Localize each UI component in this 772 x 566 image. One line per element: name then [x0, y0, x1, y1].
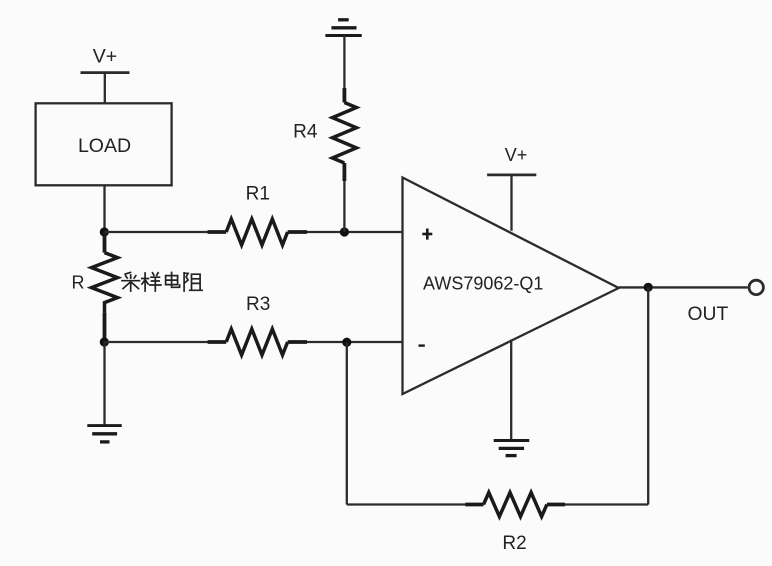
svg-text:AWS79062-Q1: AWS79062-Q1	[423, 274, 543, 294]
ground (below op-amp)	[494, 441, 530, 456]
power V+ supply (top-left)	[81, 46, 130, 104]
wire R3 to op-amp minus input	[307, 341, 403, 343]
resistor R3 (horizontal)	[208, 329, 307, 355]
resistor R4 (vertical)	[332, 88, 356, 181]
resistor R (sampling resistor, vertical)	[92, 232, 118, 342]
wire feedback rail right segment	[565, 503, 648, 505]
op-amp U1 AWS79062-Q1	[403, 178, 619, 395]
label 采样电阻 (sampling resistor) drawn as strokes	[122, 272, 202, 291]
wire R1 to op-amp plus input	[307, 231, 403, 233]
node C (bottom of R)	[100, 337, 109, 346]
svg-text:LOAD: LOAD	[78, 135, 131, 157]
svg-text:OUT: OUT	[688, 304, 729, 325]
svg-text:R1: R1	[246, 184, 270, 205]
wire feedback rail left segment	[347, 503, 467, 505]
node B (R4 bottom junction)	[340, 227, 349, 236]
svg-text:V+: V+	[93, 46, 117, 68]
svg-text:R4: R4	[293, 122, 318, 143]
wire op-amp to ground (below op-amp)	[510, 340, 512, 440]
wire node C to ground	[103, 342, 105, 426]
wire top ground to R4	[343, 36, 345, 90]
wire node E down to feedback rail	[647, 287, 649, 504]
svg-text:R: R	[72, 273, 85, 293]
power V+ supply (above op-amp)	[487, 145, 536, 231]
ground (bottom-left)	[87, 426, 121, 442]
svg-text:R2: R2	[502, 533, 526, 554]
OUT terminal circle	[749, 280, 763, 294]
ground (top, inverted)	[325, 20, 361, 36]
wire LOAD to node A	[103, 185, 105, 232]
node D (feedback junction on minus input)	[342, 338, 351, 347]
resistor R1 (horizontal)	[208, 219, 307, 245]
wire node C to R3	[105, 341, 209, 343]
resistor R2 (horizontal, feedback)	[465, 493, 565, 517]
wire node D down to feedback rail	[346, 342, 348, 504]
wire op-amp output to OUT terminal	[619, 286, 748, 288]
node A (junction under LOAD)	[100, 227, 109, 236]
node E (output junction)	[644, 283, 653, 292]
wire R4 to node B	[343, 181, 345, 232]
svg-text:V+: V+	[505, 145, 528, 165]
svg-text:R3: R3	[246, 294, 270, 315]
LOAD block	[36, 103, 172, 185]
wire node A to R1	[105, 231, 209, 233]
